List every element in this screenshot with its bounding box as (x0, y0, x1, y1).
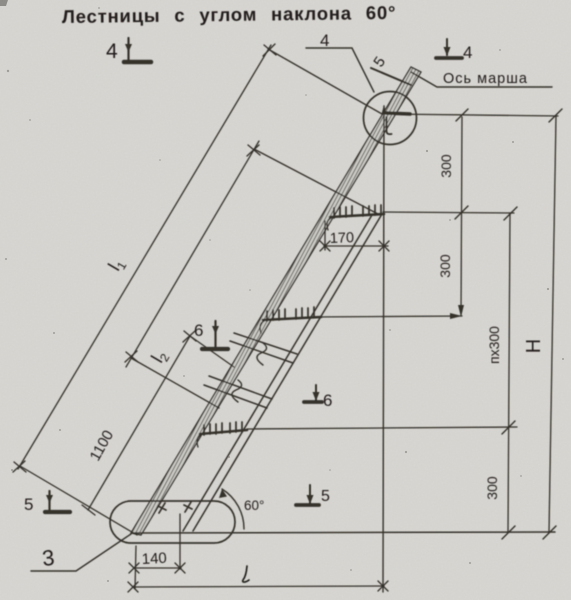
dim l bottom line (128, 581, 388, 592)
step S3 (lower) (197, 422, 247, 447)
detail oval (bottom) (110, 501, 235, 543)
step S2 (middle) (260, 307, 321, 333)
break cut line d (204, 385, 267, 408)
arrow down at 461,314 (458, 305, 464, 317)
break squiggle ab (257, 343, 267, 365)
svg-text:170: 170 (330, 230, 355, 247)
vertical dim H (549, 116, 556, 532)
svg-text:140: 140 (141, 550, 167, 568)
horizontal dim top (387, 114, 558, 116)
leader 3 (31, 534, 131, 571)
dim line L1 (13, 44, 276, 472)
second stringer (double line) (183, 214, 382, 531)
base line (133, 532, 555, 533)
L2 extension bottom (131, 358, 219, 408)
vertical projection line (383, 106, 384, 592)
detail circle (top) (364, 92, 417, 145)
L2 extension top (254, 149, 378, 214)
break cut line b (230, 341, 293, 363)
section mark 4 left (124, 38, 151, 62)
slash tick 549 base (543, 526, 556, 539)
label l bottom (script ell) (243, 566, 249, 582)
slash tick H top (549, 109, 562, 122)
section mark 5 right (296, 485, 319, 505)
leader os marsha (411, 72, 552, 87)
slash tick 462 mid (455, 206, 468, 219)
1100 extension (190, 336, 234, 367)
dim 140 line (129, 563, 185, 573)
stringer (hatched band) (131, 67, 421, 535)
svg-text:3: 3 (41, 545, 56, 571)
horizontal dim y427 (247, 427, 517, 429)
top support bar (386, 113, 410, 114)
top joint hook (387, 117, 392, 134)
section mark 4 right (436, 39, 462, 58)
L1 extension bottom (20, 466, 137, 535)
svg-text:4: 4 (106, 40, 118, 63)
slash tick 510 top (504, 207, 517, 220)
arrow up at 384,106 (382, 105, 387, 114)
svg-text:4: 4 (463, 43, 472, 62)
svg-text:Лестницы с углом наклона 60°: Лестницы с углом наклона 60° (62, 2, 397, 27)
leader 4 top (306, 48, 374, 92)
break cut line a (234, 333, 297, 354)
L1 extension top (268, 49, 382, 114)
bottom rungs (two cross marks) (158, 502, 192, 513)
dim line L2 (125, 141, 260, 367)
section mark 5 left (45, 491, 70, 512)
svg-text:4: 4 (320, 31, 329, 50)
step S1 (top) (327, 205, 384, 230)
svg-text:300: 300 (438, 154, 454, 178)
break squiggle cd (232, 380, 242, 402)
svg-text:Ось марша: Ось марша (443, 71, 528, 87)
section tick 5 top (371, 68, 411, 85)
svg-text:пх300: пх300 (486, 326, 502, 364)
svg-text:300: 300 (484, 476, 500, 500)
svg-text:6: 6 (194, 321, 203, 340)
horizontal dim y212 (383, 212, 514, 213)
dim 170 line (320, 241, 389, 251)
angle arc 60 (222, 489, 244, 529)
dim 170 extension (324, 221, 326, 250)
svg-text:H: H (523, 339, 545, 353)
svg-text:5: 5 (24, 495, 33, 514)
break cut line c (209, 376, 272, 399)
slash tick 508 base (502, 526, 515, 539)
slash tick 508 at y427 (502, 421, 515, 434)
vertical dim x510 (508, 213, 510, 532)
section mark 6 lower (304, 385, 322, 402)
section mark 6 upper (202, 321, 228, 349)
arrow right at 462,316 (450, 313, 462, 319)
horizontal dim y316 (315, 316, 462, 317)
svg-text:6: 6 (323, 391, 332, 410)
vertical dim x462 (461, 117, 462, 315)
dim 140 extension right (179, 514, 181, 569)
svg-text:300: 300 (437, 254, 453, 278)
svg-text:5: 5 (321, 488, 330, 505)
dim 140 extension left (135, 546, 136, 589)
slash tick 462 top (456, 109, 468, 121)
svg-text:60°: 60° (244, 498, 264, 513)
dim line 1100 (82, 331, 196, 515)
